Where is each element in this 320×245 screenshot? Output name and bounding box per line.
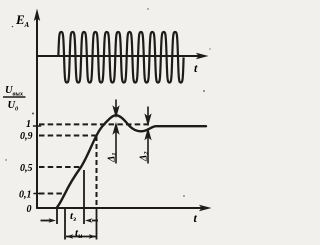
dashed level 0.9 line	[39, 135, 96, 137]
dashed level 0.1 line	[39, 193, 64, 195]
bottom graph t-axis wire	[37, 207, 201, 209]
delta2 upper arrow	[147, 107, 149, 119]
dashed level 0.5 line	[39, 166, 81, 168]
dashed level 1 line	[39, 123, 152, 125]
svg-text:A: A	[24, 21, 30, 29]
scan noise specks	[5, 8, 210, 197]
t_z dimension right arrow wire	[92, 220, 98, 222]
svg-text:0,5: 0,5	[20, 163, 33, 174]
label fraction U_vyh / U_0	[3, 85, 26, 113]
delta1 lower arrow	[115, 131, 117, 164]
delta1 upper arrow	[115, 100, 117, 111]
t_f left arrowhead	[66, 234, 74, 238]
vertical axis arrowhead	[34, 9, 40, 22]
bottom t-axis arrowhead	[199, 205, 212, 211]
guide vertical at 0.1 crossing	[64, 208, 66, 240]
dashed vertical at 0.9 crossing	[96, 136, 98, 207]
paper background	[0, 0, 218, 245]
t_z right arrowhead	[85, 218, 93, 222]
tick level 0.1	[34, 193, 41, 195]
vertical axis (shared E / Uвых axis)	[36, 14, 38, 208]
guide vertical at curve start	[56, 208, 58, 224]
y axis value labels	[19, 119, 33, 215]
top t-axis arrowhead	[196, 53, 209, 59]
guide vertical at 0.5 crossing	[83, 170, 85, 224]
t_f right arrowhead	[89, 234, 97, 238]
output transient curve	[57, 115, 207, 208]
t_f dimension wire	[66, 236, 96, 238]
svg-text:0,9: 0,9	[20, 131, 33, 142]
t_z dimension left arrow wire	[41, 220, 51, 222]
svg-text:0,1: 0,1	[19, 190, 32, 201]
svg-text:0: 0	[27, 204, 32, 215]
svg-text:E: E	[15, 12, 25, 27]
tick level 1	[34, 125, 41, 127]
top graph t-axis wire	[37, 55, 198, 57]
RF burst waveform	[58, 32, 183, 83]
t_z left arrowhead	[49, 218, 57, 222]
svg-text:1: 1	[26, 119, 31, 130]
guide vertical at 0.9 crossing below axis	[96, 208, 98, 240]
delta2 lower arrow	[147, 137, 149, 164]
